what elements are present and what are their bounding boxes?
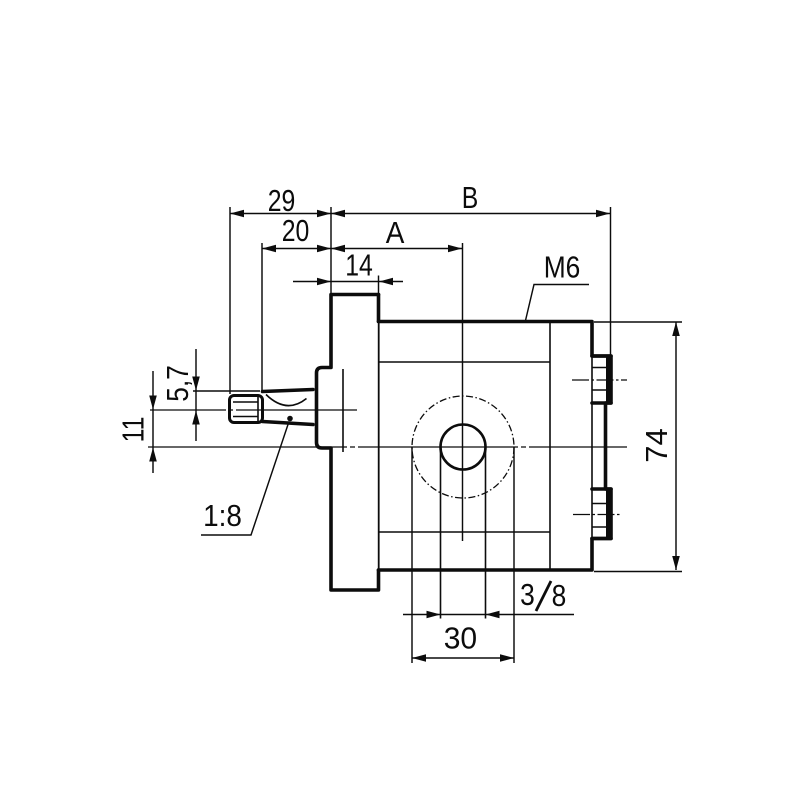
svg-text:1:8: 1:8: [203, 499, 242, 534]
svg-text:A: A: [386, 216, 405, 251]
svg-text:11: 11: [116, 417, 150, 443]
svg-text:B: B: [462, 180, 479, 214]
svg-text:3: 3: [520, 578, 535, 612]
svg-text:14: 14: [345, 248, 373, 282]
svg-text:20: 20: [282, 213, 310, 247]
svg-text:30: 30: [444, 621, 477, 656]
svg-text:5,7: 5,7: [161, 365, 195, 402]
svg-text:M6: M6: [544, 251, 581, 285]
svg-text:74: 74: [639, 428, 674, 462]
svg-text:8: 8: [552, 579, 567, 613]
